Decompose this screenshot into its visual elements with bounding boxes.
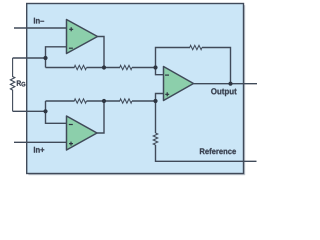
wire A3 feedback loop xyxy=(156,48,231,84)
wire A1 inverting feedback (to node RG top) xyxy=(46,47,67,68)
wire top row to A3 node xyxy=(132,67,156,69)
label RG xyxy=(17,80,25,86)
wire Reference xyxy=(156,145,257,161)
wire A1 output drop xyxy=(98,37,105,68)
wire top row middle xyxy=(87,67,121,69)
wire RG top pin xyxy=(13,57,46,59)
resistor RG xyxy=(10,58,14,111)
label Output xyxy=(211,88,237,96)
junction node RG bottom xyxy=(43,109,47,113)
label In- xyxy=(34,18,44,24)
label In+ xyxy=(34,147,44,153)
junction node A3 output xyxy=(228,82,232,86)
junction node A3 inverting xyxy=(153,65,157,69)
label Reference xyxy=(200,148,236,154)
junction node RG top xyxy=(43,56,47,60)
wire A2 output rise xyxy=(97,101,104,133)
wire bottom row middle xyxy=(87,100,121,102)
wire top gain row xyxy=(46,67,75,69)
wire bottom row to A3 node xyxy=(132,100,156,102)
junction node A2 output xyxy=(102,99,106,103)
op-amp A3 xyxy=(164,67,194,101)
op-amp A1 xyxy=(67,20,98,54)
resistor R5 (A3 feedback) xyxy=(190,45,202,49)
in-amp IC boundary box shadow xyxy=(28,5,245,175)
junction node A3 non-inverting xyxy=(153,99,157,103)
resistor R6 (reference) xyxy=(153,133,157,145)
wire jog into A3 inverting input xyxy=(156,68,164,75)
in-amp IC boundary box xyxy=(27,4,244,174)
op-amp A2 xyxy=(67,116,98,150)
resistor R1 (A1 feedback) xyxy=(74,65,86,69)
wire In+ input xyxy=(14,141,67,143)
junction node A1 output xyxy=(102,65,106,69)
wire RG bottom pin xyxy=(13,110,46,112)
wire In- input xyxy=(14,27,67,29)
resistor R2 (to A3 inverting input) xyxy=(120,65,132,69)
wire bottom gain row xyxy=(46,100,75,102)
resistor R4 (to A3 non-inverting input) xyxy=(120,99,132,103)
wire Output xyxy=(194,83,258,85)
wire reference drop xyxy=(155,101,157,133)
wire jog into A3 non-inverting input xyxy=(156,94,164,102)
resistor R3 (A2 feedback) xyxy=(74,99,86,103)
wire A2 inverting feedback (to node RG bottom) xyxy=(46,101,67,123)
